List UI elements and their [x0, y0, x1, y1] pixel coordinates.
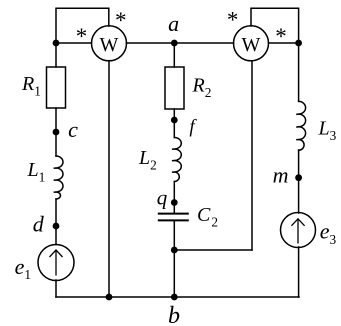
svg-text:W: W [242, 34, 261, 56]
wire L1 to e1 (node d) [55, 199, 57, 245]
wire left rail upper [55, 43, 57, 67]
source e1 arrow [50, 250, 63, 276]
node f junction [171, 117, 178, 124]
node below C2 junction [171, 247, 178, 254]
wire W1 to node a to W2 [126, 42, 233, 44]
node junction left top [53, 40, 60, 47]
svg-text:q: q [157, 186, 168, 210]
wattmeter W2 [234, 26, 269, 61]
wire R1 to L1 (node c) [55, 108, 57, 156]
wire L3 to e3 (node m) [298, 150, 300, 213]
svg-text:*: * [275, 24, 287, 49]
svg-text:W: W [100, 34, 119, 56]
svg-text:*: * [227, 8, 239, 33]
wire node a down to R2 [173, 43, 175, 67]
node junction right top [295, 40, 302, 47]
svg-text:*: * [76, 24, 88, 49]
wire W2 voltage-coil top loop [251, 8, 299, 43]
svg-text:c: c [68, 117, 78, 142]
svg-text:d: d [33, 212, 45, 237]
node c junction [53, 129, 60, 136]
svg-text:a: a [168, 11, 179, 36]
node W1 return on rail [106, 294, 113, 301]
wire left node to W1 [56, 42, 92, 44]
inductor L1 [54, 156, 63, 199]
wire W2 voltage return [251, 61, 253, 250]
wire C2 to node b [173, 221, 175, 298]
svg-text:b: b [168, 303, 180, 326]
resistor R1 [47, 67, 66, 108]
source e3 [281, 213, 316, 248]
wire L2 to C2 (node q) [173, 182, 175, 214]
wattmeter W1 [92, 26, 127, 61]
resistor R2 [165, 67, 184, 109]
source e1 [38, 245, 74, 281]
inductor L3 [296, 101, 305, 150]
wire W1 voltage-coil top loop [56, 8, 109, 43]
svg-text:*: * [115, 8, 127, 33]
wire e1 to bottom rail [55, 280, 57, 297]
capacitor C2 [159, 214, 188, 221]
wire right rail upper [298, 43, 300, 101]
node a junction [171, 40, 178, 47]
source e3 arrow [291, 219, 304, 244]
node m junction [295, 174, 302, 181]
wire W1 voltage return [108, 61, 110, 297]
node d junction [53, 223, 60, 230]
inductor L2 [172, 138, 181, 182]
wire W2 to right node [268, 42, 298, 44]
node b junction [171, 294, 178, 301]
wire e3 to bottom rail [298, 247, 300, 297]
wire C2 junction to W2 return [174, 249, 252, 251]
svg-text:m: m [273, 163, 289, 188]
wire R2 to L2 (node f) [173, 109, 175, 138]
wire bottom rail [56, 296, 299, 298]
node q junction [171, 199, 178, 206]
